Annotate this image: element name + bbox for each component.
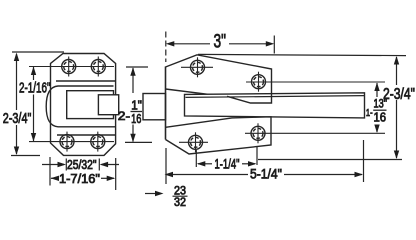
top plate — [166, 55, 272, 95]
bar top inner edge — [186, 96, 365, 98]
svg-text:2-3/4": 2-3/4" — [3, 110, 32, 127]
svg-text:2-1/16": 2-1/16" — [19, 81, 51, 97]
hole mid top-right — [252, 72, 266, 92]
svg-text:3": 3" — [214, 32, 227, 53]
bar — [185, 93, 365, 118]
bolt — [98, 95, 118, 115]
hole top-right — [91, 57, 105, 77]
svg-text:1-: 1- — [366, 108, 373, 119]
bracket left face — [165, 67, 167, 140]
case inner face — [67, 91, 114, 119]
svg-text:16: 16 — [131, 111, 141, 126]
svg-text:32: 32 — [174, 195, 186, 209]
hole mid top-left — [191, 57, 205, 77]
svg-text:25/32": 25/32" — [67, 158, 97, 172]
top plate far edge over bar — [227, 94, 272, 103]
svg-text:1-7/16": 1-7/16" — [59, 171, 100, 186]
centerline bottom-left hole — [179, 141, 208, 143]
bottom hole centerline — [29, 141, 114, 143]
svg-text:2-3/4": 2-3/4" — [383, 86, 415, 103]
plate outline — [51, 54, 116, 156]
sleeve protrusion — [143, 94, 166, 120]
centerline bottom-right hole (ext right) — [245, 132, 385, 134]
hole mid bottom-right — [251, 123, 265, 143]
hole top-left — [62, 57, 76, 77]
case body — [46, 86, 115, 127]
case lower line — [57, 134, 116, 136]
centerline top-left hole — [181, 66, 213, 68]
svg-text:1-1/4": 1-1/4" — [215, 157, 240, 172]
bottom plate — [166, 117, 272, 154]
hole mid bottom-left — [189, 132, 203, 152]
hole bottom-left — [60, 132, 74, 152]
hole bottom-right — [91, 132, 105, 152]
svg-text:16: 16 — [374, 111, 387, 125]
top hole centerline — [29, 66, 114, 68]
case back top edge — [56, 80, 116, 82]
svg-text:2-: 2- — [118, 109, 130, 123]
centerline top-right hole (ext right) — [246, 81, 385, 83]
svg-text:5-1/4": 5-1/4" — [250, 166, 282, 182]
